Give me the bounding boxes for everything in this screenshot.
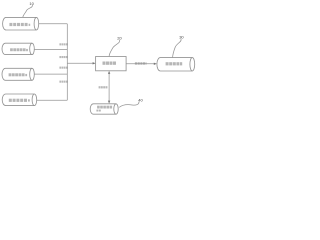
power wire label (99, 86, 108, 88)
arrowhead into display (154, 63, 157, 65)
text in S2 (10, 48, 28, 51)
wire from S4 to bus (37, 99, 68, 101)
vertical power wire between box and power unit (108, 74, 110, 101)
text in power cylinder line1 (97, 106, 112, 109)
wire from box to display cylinder (126, 63, 154, 65)
sensor cylinder S2 (2, 43, 34, 54)
text in display cylinder (166, 62, 183, 65)
display cylinder D1 (157, 58, 195, 71)
power cylinder P1 (90, 104, 118, 114)
vertical bus (66, 24, 68, 100)
bus signal label C (59, 67, 67, 69)
down arrowhead at power unit top (108, 101, 110, 104)
text in S1 (9, 23, 30, 26)
wire from S1 to bus (39, 23, 68, 25)
leader for 20 (109, 40, 120, 57)
text in processor box (103, 62, 117, 65)
svg-text:30: 30 (179, 35, 184, 40)
sensor cylinder S3 (2, 68, 34, 80)
wire from S2 to bus (34, 48, 67, 50)
up arrowhead at box bottom (108, 71, 110, 74)
bus signal label D (59, 81, 67, 83)
leader for 10 (23, 5, 33, 17)
svg-text:10: 10 (29, 1, 34, 6)
leader for 30 (173, 39, 182, 58)
text in power cylinder line2 (96, 110, 100, 112)
leader for 40 (119, 102, 139, 108)
bus signal label A (59, 43, 67, 45)
processor box U (96, 57, 127, 71)
wire label on display wire (135, 62, 147, 64)
sensor cylinder S1 (3, 17, 39, 30)
sensor cylinder S4 (2, 94, 37, 106)
arrow from bus into processor box (67, 62, 93, 64)
wire from S3 to bus (34, 73, 67, 75)
text in S4 (9, 99, 30, 102)
text in S3 (9, 73, 27, 76)
bus signal label B (59, 56, 67, 58)
